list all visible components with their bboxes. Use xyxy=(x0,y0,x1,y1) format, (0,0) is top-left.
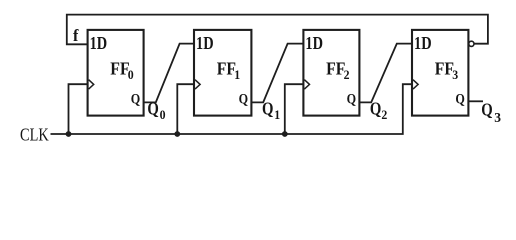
svg-text:1D: 1D xyxy=(305,32,323,53)
svg-text:2: 2 xyxy=(344,68,350,82)
svg-text:Q: Q xyxy=(147,101,158,119)
svg-text:1D: 1D xyxy=(196,32,214,53)
svg-text:1D: 1D xyxy=(414,32,432,53)
svg-text:Q: Q xyxy=(131,90,140,106)
svg-text:3: 3 xyxy=(452,68,458,82)
svg-text:Q: Q xyxy=(239,90,248,106)
svg-text:FF: FF xyxy=(435,59,454,79)
svg-text:Q: Q xyxy=(481,101,492,119)
svg-text:Q: Q xyxy=(347,90,356,106)
svg-text:0: 0 xyxy=(160,108,166,122)
svg-text:1: 1 xyxy=(274,108,280,122)
svg-text:FF: FF xyxy=(217,59,236,79)
svg-text:CLK: CLK xyxy=(20,126,49,145)
svg-text:1D: 1D xyxy=(90,32,108,53)
svg-text:0: 0 xyxy=(128,68,134,82)
svg-text:3: 3 xyxy=(494,110,501,125)
svg-text:Q: Q xyxy=(370,101,381,119)
svg-text:Q: Q xyxy=(262,101,273,119)
svg-text:FF: FF xyxy=(326,59,345,79)
svg-text:f: f xyxy=(73,26,79,45)
svg-text:FF: FF xyxy=(110,59,129,79)
svg-text:Q: Q xyxy=(455,90,464,106)
svg-text:2: 2 xyxy=(381,108,387,122)
svg-text:1: 1 xyxy=(234,68,240,82)
